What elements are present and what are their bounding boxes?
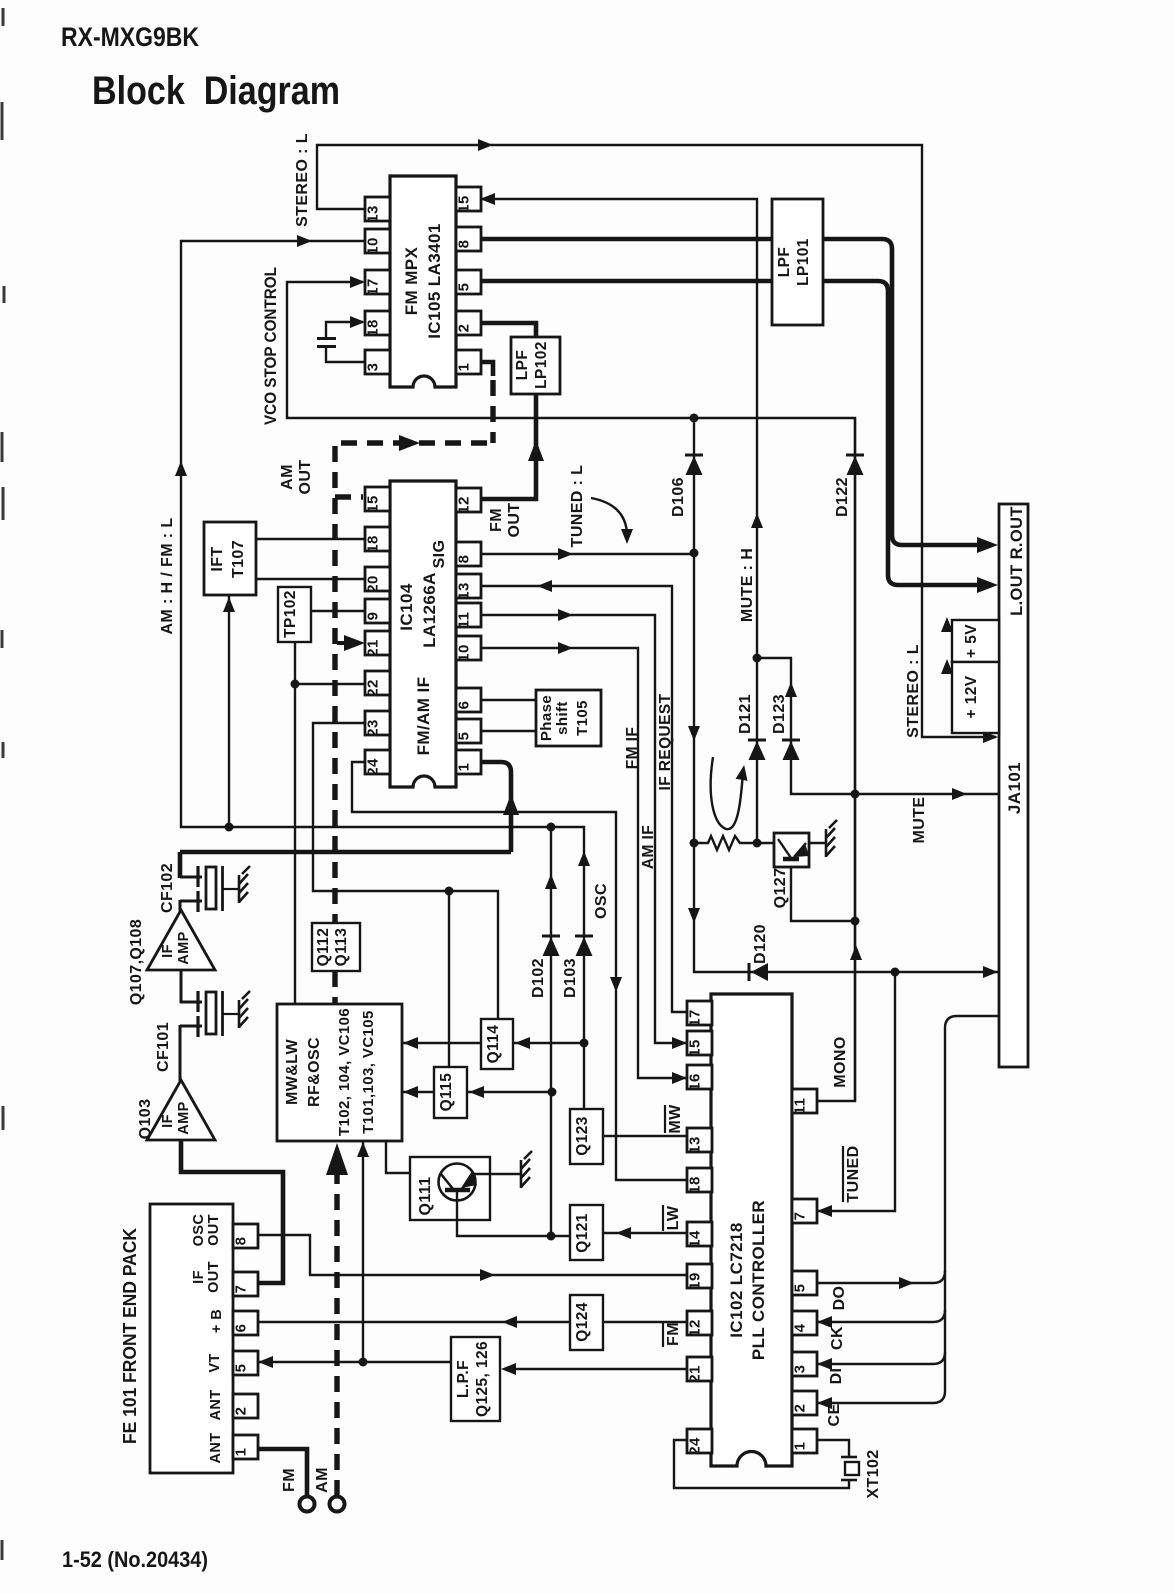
svg-text:14: 14 <box>687 1230 704 1248</box>
block Q114 <box>481 1019 513 1069</box>
IC105 pin8 <box>456 227 481 251</box>
wire VCO STOP CONTROL / tuning line <box>287 282 855 1101</box>
svg-text:D106: D106 <box>670 477 687 517</box>
IC105 pin1 <box>456 350 481 374</box>
svg-text:6: 6 <box>233 1324 250 1333</box>
IC104 pin12 <box>456 488 481 512</box>
wire T107 stem down to AM:H/FM:L line <box>228 596 230 827</box>
svg-text:MUTE : H: MUTE : H <box>739 548 756 622</box>
wire IC104 pin6 to phase shift <box>478 699 536 701</box>
IC102 pin1 <box>792 1429 817 1453</box>
junction resistor left <box>690 839 699 848</box>
svg-text:15: 15 <box>365 495 382 513</box>
block LPF LP102 <box>511 337 560 394</box>
svg-text:T102, 104, VC106: T102, 104, VC106 <box>336 1008 353 1136</box>
svg-text:AM : H / FM : L: AM : H / FM : L <box>159 517 176 634</box>
wire D106 mute branch vertical <box>694 418 1000 972</box>
wire IC104 pin24 OSC loop <box>352 762 687 1180</box>
power arrow +12V <box>947 669 952 671</box>
FE101 pin2 <box>233 1394 258 1418</box>
svg-text:LPF: LPF <box>514 350 531 380</box>
svg-text:FM IF: FM IF <box>624 727 641 769</box>
svg-text:T107: T107 <box>230 540 247 578</box>
svg-text:T101,103, VC105: T101,103, VC105 <box>360 1010 377 1134</box>
svg-text:13: 13 <box>687 1136 704 1154</box>
svg-text:IF: IF <box>160 1114 176 1128</box>
wire thick IC104 pin1 IF input <box>478 762 511 852</box>
svg-text:FM: FM <box>665 1322 682 1346</box>
block +12V <box>952 662 999 733</box>
wire dashed AM antenna riser <box>334 1175 339 1496</box>
svg-text:6: 6 <box>456 701 473 710</box>
wire IC105 pin18 capacitor link <box>326 322 363 339</box>
wire dashed arrow into IC104 pin21 <box>337 641 350 645</box>
svg-text:IC105 LA3401: IC105 LA3401 <box>425 223 444 338</box>
crystal XT102 <box>841 1456 857 1459</box>
junction D103 Q114 <box>580 1039 589 1048</box>
svg-text:Q112: Q112 <box>315 928 332 967</box>
resistor (mute network) <box>694 836 757 850</box>
wire IC102 pin14 to Q121 (LW) <box>603 1232 687 1234</box>
svg-text:18: 18 <box>365 319 382 337</box>
svg-text:T105: T105 <box>574 700 591 736</box>
block TP102 <box>278 587 311 642</box>
svg-text:2: 2 <box>456 324 473 333</box>
svg-text:OSC: OSC <box>191 1214 207 1247</box>
wire Q111 emitter to Q121 line <box>457 1192 570 1236</box>
svg-text:FE 101 FRONT END PACK: FE 101 FRONT END PACK <box>120 1228 140 1444</box>
block Q124 <box>570 1295 603 1350</box>
diode D103 <box>576 937 593 956</box>
junction mute line at D122 <box>851 790 860 799</box>
wire RF&OSC to Q115 <box>402 1091 434 1093</box>
svg-text:VT: VT <box>207 1353 223 1372</box>
svg-text:Q121: Q121 <box>574 1213 591 1253</box>
junction Q115 stem <box>445 887 454 896</box>
svg-text:12: 12 <box>456 496 473 514</box>
amplifier IF AMP Q107,Q108 <box>147 910 215 970</box>
terminal FM antenna <box>300 1497 315 1512</box>
svg-text:LP102: LP102 <box>533 341 550 389</box>
svg-text:5: 5 <box>456 283 473 292</box>
IC102 pin13 <box>687 1128 712 1152</box>
diode D106 <box>686 456 703 475</box>
svg-text:D122: D122 <box>834 477 851 517</box>
svg-text:CE: CE <box>826 1403 843 1426</box>
svg-text:IF: IF <box>191 1270 207 1284</box>
amplifier IF AMP Q103 <box>147 1080 215 1140</box>
wire TP102 stem to RF&OSC <box>294 642 296 1004</box>
svg-text:IF: IF <box>160 944 176 958</box>
block MW&LW RF&OSC <box>277 1004 402 1141</box>
annotation meter curve <box>711 757 743 829</box>
ceramic filter CF102 <box>180 876 202 879</box>
svg-text:LA1266A: LA1266A <box>420 572 439 648</box>
svg-text:AM: AM <box>279 464 296 490</box>
IC104 pin1r <box>456 750 481 774</box>
svg-text:SIG: SIG <box>431 540 448 569</box>
IC104 pin18 <box>365 527 390 551</box>
diode D122 <box>847 456 864 475</box>
wire Q115 to D102 vertical <box>467 1091 552 1093</box>
svg-text:FM: FM <box>488 508 505 532</box>
svg-text:8: 8 <box>456 240 473 249</box>
power arrow +5V <box>947 627 952 629</box>
wire thick IC105 pin8 to JA101 R.OUT <box>480 239 985 545</box>
svg-text:FM: FM <box>281 1468 298 1492</box>
wire IC104 pin11 to IC102 pin15 <box>478 615 686 1043</box>
wire thick FM antenna to FE101 pin1 <box>257 1449 307 1496</box>
svg-text:3: 3 <box>792 1365 809 1374</box>
IC102 pin4 <box>792 1311 817 1335</box>
wire T107 to IC104 pin18 <box>256 538 365 540</box>
wire D122/MONO vertical <box>854 418 856 1101</box>
junction MUTE:H branch D123 <box>753 654 762 663</box>
svg-text:Phase: Phase <box>538 695 555 741</box>
FE101 pin6 <box>233 1311 258 1335</box>
svg-text:FM/AM IF: FM/AM IF <box>414 677 433 756</box>
FE101 pin7 <box>233 1272 258 1296</box>
IC104 pin8r <box>456 542 481 566</box>
svg-text:STEREO : L: STEREO : L <box>905 644 922 738</box>
svg-text:Q125, 126: Q125, 126 <box>474 1341 491 1417</box>
svg-text:Q103: Q103 <box>137 1099 154 1140</box>
terminal AM antenna <box>330 1497 345 1512</box>
wire Q123 to IC102 pin13 (MW) <box>603 1135 687 1137</box>
junction D102 Q121 line <box>547 1232 556 1241</box>
FE101 pin8 <box>233 1224 258 1248</box>
svg-text:Q124: Q124 <box>574 1302 591 1342</box>
svg-text:XT102: XT102 <box>865 1449 882 1498</box>
IC104 body FM/AM IF LA1266A <box>390 481 456 787</box>
IC104 pin9 <box>365 599 390 623</box>
block Q115 <box>434 1067 467 1118</box>
transistor Q111 box <box>410 1157 490 1220</box>
IC105 pin18 <box>365 311 390 335</box>
wire TP102 to IC104 pin9 <box>311 610 365 612</box>
ground at CF101 <box>239 991 250 1028</box>
block Q112 Q113 <box>312 923 360 971</box>
svg-text:L.OUT R.OUT: L.OUT R.OUT <box>1008 506 1026 616</box>
svg-text:5: 5 <box>792 1284 809 1293</box>
IC105 pin15 <box>456 187 481 211</box>
svg-text:15: 15 <box>687 1039 704 1057</box>
svg-text:TP102: TP102 <box>282 590 299 638</box>
svg-text:18: 18 <box>687 1176 704 1194</box>
svg-text:4: 4 <box>792 1323 809 1332</box>
svg-text:11: 11 <box>792 1098 809 1115</box>
IC102 pin24 <box>687 1429 712 1453</box>
svg-text:MW&LW: MW&LW <box>284 1039 301 1105</box>
svg-text:DI: DI <box>828 1368 845 1385</box>
annotation curved arrow TUNED:L <box>591 498 627 540</box>
scan edge marks <box>2 8 4 1560</box>
svg-text:Q115: Q115 <box>438 1073 455 1112</box>
svg-text:21: 21 <box>687 1365 704 1383</box>
ceramic filter CF101 <box>180 1001 202 1004</box>
svg-text:12: 12 <box>687 1319 704 1337</box>
junction TP102 stem pin22 <box>291 680 300 689</box>
transistor Q127 symbol <box>778 839 791 858</box>
svg-text:17: 17 <box>687 1009 704 1027</box>
wire CF102 corner <box>178 852 183 878</box>
wire IC104 pin13 to IC102 pin17 <box>478 586 687 1012</box>
junction on AM:H/FM:L at D102 <box>547 823 556 832</box>
svg-text:LP101: LP101 <box>795 238 812 286</box>
svg-text:OUT: OUT <box>506 503 523 538</box>
FE101 pin5 <box>233 1351 258 1375</box>
IC104 pin21 <box>365 631 390 655</box>
IC104 pin23 <box>365 711 390 735</box>
IC105 pin3 <box>365 350 390 374</box>
wire MUTE:H from IC105 pin15 down <box>481 199 757 843</box>
svg-text:23: 23 <box>365 719 382 737</box>
svg-text:TUNED: TUNED <box>845 1145 862 1202</box>
block IFT T107 <box>204 522 256 595</box>
svg-text:20: 20 <box>365 575 382 593</box>
svg-text:AM: AM <box>314 1467 331 1493</box>
svg-text:Q111: Q111 <box>417 1177 434 1216</box>
capacitor C (VCO) plates <box>317 337 336 340</box>
ground at CF102 <box>239 866 250 903</box>
IC102 pin11 <box>792 1089 817 1113</box>
svg-text:7: 7 <box>233 1285 250 1294</box>
junction y418 at D106 branch <box>690 414 699 423</box>
wire T107 to IC104 pin20 <box>256 578 365 580</box>
svg-text:IFT: IFT <box>209 546 226 571</box>
svg-text:LPF: LPF <box>776 247 793 277</box>
IC102 pin7 <box>792 1199 817 1223</box>
IC102 body PLL CONTROLLER LC7218 <box>711 994 792 1466</box>
IC104 pin6r <box>456 688 481 712</box>
diode D102 <box>543 937 560 956</box>
IC104 pin13r <box>456 574 481 598</box>
wire Q107 to CF101 <box>180 969 183 1003</box>
svg-text:D102: D102 <box>530 958 547 998</box>
IC102 pin15 <box>687 1031 712 1055</box>
wire dashed below Q112 to RF&OSC <box>332 971 337 1004</box>
diode D123 <box>783 741 800 760</box>
junction MUTE:H resistor right <box>753 839 762 848</box>
wire thick LP102 to IC104 pin12 (FM OUT) <box>478 394 536 499</box>
svg-text:1: 1 <box>456 763 473 772</box>
svg-text:15: 15 <box>456 195 473 213</box>
svg-text:1: 1 <box>233 1448 250 1457</box>
svg-text:2: 2 <box>233 1407 250 1416</box>
wire CF101 to IF amp Q103 <box>179 1025 182 1081</box>
wire Q127 collector to ground <box>809 842 826 844</box>
svg-text:D120: D120 <box>752 924 769 964</box>
svg-text:+ 12V: + 12V <box>963 675 980 718</box>
svg-text:13: 13 <box>456 582 473 600</box>
svg-text:JA101: JA101 <box>1005 762 1024 814</box>
svg-text:Block Diagram: Block Diagram <box>92 69 340 113</box>
wire VT riser to RF&OSC <box>362 1141 364 1362</box>
svg-text:1-52 (No.20434): 1-52 (No.20434) <box>62 1547 208 1572</box>
svg-text:7: 7 <box>792 1212 809 1221</box>
svg-text:10: 10 <box>456 644 473 662</box>
svg-text:3: 3 <box>365 363 382 372</box>
wire thick IF line to CF102 <box>180 850 511 855</box>
wire thick IC105 pin5 to JA101 L.OUT <box>480 281 985 585</box>
svg-text:Q113: Q113 <box>333 928 350 967</box>
wire D123 branch to MUTE line <box>757 658 1000 794</box>
IC102 pin12 <box>687 1311 712 1335</box>
wire AM:H/FM:L long left loop <box>181 241 584 938</box>
wire TUNED:L from IC104 pin8 <box>478 553 694 555</box>
IC102 pin19 <box>687 1264 712 1288</box>
block Q123 <box>570 1109 603 1164</box>
transistor Q111 symbol <box>439 1164 476 1201</box>
wire IC104 pin23 loop to Q114/Q115 <box>313 723 498 1019</box>
wire IC102 pin7 TUNED to D120 line <box>816 972 895 1211</box>
svg-text:22: 22 <box>365 679 382 697</box>
IC102 pin21 <box>687 1357 712 1381</box>
IC102 pin18 <box>687 1168 712 1192</box>
transistor Q127 box <box>774 833 809 867</box>
ground at Q127 <box>826 820 837 857</box>
svg-text:D121: D121 <box>737 694 754 734</box>
IC104 pin15 <box>365 487 390 511</box>
svg-text:RX-MXG9BK: RX-MXG9BK <box>61 22 199 52</box>
svg-text:CF101: CF101 <box>155 1022 172 1072</box>
diode D120 <box>751 963 768 981</box>
IC105 body FM MPX LA3401 <box>390 176 456 387</box>
svg-text:2: 2 <box>792 1404 809 1413</box>
wire CF102 to IF amp <box>179 900 182 912</box>
svg-text:OUT: OUT <box>206 1214 222 1246</box>
svg-text:AMP: AMP <box>176 931 192 964</box>
IC102 pin16 <box>687 1065 712 1089</box>
svg-text:19: 19 <box>687 1272 704 1290</box>
junction VT riser <box>359 1358 368 1367</box>
IC104 pin20 <box>365 567 390 591</box>
svg-text:13: 13 <box>365 205 382 223</box>
IC102 pin17 <box>687 1001 712 1025</box>
svg-text:DO: DO <box>831 1286 848 1311</box>
svg-text:OUT: OUT <box>297 460 314 495</box>
IC105 pin10 <box>365 229 390 253</box>
IC105 pin13 <box>365 197 390 221</box>
wire D102 vertical <box>550 827 552 1236</box>
IC104 pin11r <box>456 603 481 627</box>
svg-text:Q107,Q108: Q107,Q108 <box>128 919 145 1005</box>
IC102 pin2 <box>792 1391 817 1415</box>
svg-text:PLL CONTROLLER: PLL CONTROLLER <box>749 1200 768 1360</box>
svg-text:MW: MW <box>667 1104 684 1134</box>
diode D121 <box>749 741 766 760</box>
wire XT102 to IC102 pin24 <box>674 1440 849 1488</box>
wire IC104 pin5 to phase shift <box>478 730 536 732</box>
svg-text:MUTE: MUTE <box>911 797 928 844</box>
wire FE101 pin5 VT to LPF Q125 <box>257 1361 451 1363</box>
junction tuned line <box>690 549 699 558</box>
svg-text:IC104: IC104 <box>397 583 416 631</box>
wire RF&OSC to Q114 <box>402 1042 481 1044</box>
IC104 pin22 <box>365 671 390 695</box>
IC105 pin17 <box>365 270 390 294</box>
svg-text:11: 11 <box>456 612 473 629</box>
wire IC104 pin10 to IC102 pin16 <box>478 648 686 1078</box>
block Phase shift T105 <box>536 690 601 746</box>
connector JA101 <box>999 504 1028 1067</box>
block +5V <box>952 620 999 662</box>
IC102 pin14 <box>687 1222 712 1246</box>
svg-text:L.P.F: L.P.F <box>455 1360 472 1398</box>
svg-text:shift: shift <box>554 701 571 735</box>
svg-text:5: 5 <box>456 732 473 741</box>
svg-text:D123: D123 <box>771 694 788 734</box>
svg-text:D103: D103 <box>562 958 579 998</box>
wire FE101 pin6 +B to Q124 to IC102 pin12 (FM) <box>257 1321 570 1323</box>
wire dashed AM OUT: IC105 pin1 to IC104 pin15 <box>480 362 493 376</box>
wire RF&OSC to Q111 base <box>386 1141 410 1173</box>
svg-text:24: 24 <box>687 1437 704 1455</box>
svg-text:IC102 LC7218: IC102 LC7218 <box>727 1222 746 1337</box>
svg-text:8: 8 <box>456 555 473 564</box>
wire STEREO:L from IC105 pin13 to JA101 <box>317 145 996 737</box>
svg-text:IF REQUEST: IF REQUEST <box>657 693 674 790</box>
junction D102 Q115 <box>548 1088 557 1097</box>
wire IC102 pin1 to XT102 <box>816 1440 849 1457</box>
wire thick IC105 pin2 to LPF LP102 <box>480 323 536 337</box>
IC105 pin2 <box>456 311 481 335</box>
wire capacitor to IC105 pin3 <box>326 346 365 362</box>
svg-text:AM IF: AM IF <box>640 825 657 869</box>
ground at Q111 <box>521 1151 532 1188</box>
svg-text:STEREO : L: STEREO : L <box>294 133 311 227</box>
wire Q115 stem <box>448 891 450 1067</box>
wire FE101 pin8 OSC OUT to IC102 pin19 <box>257 1235 687 1275</box>
svg-text:9: 9 <box>365 612 382 621</box>
svg-text:RF&OSC: RF&OSC <box>306 1037 323 1107</box>
svg-text:24: 24 <box>365 758 382 776</box>
svg-text:OSC: OSC <box>593 883 610 919</box>
junction on AM:H/FM:L at T107 stem <box>225 823 234 832</box>
wire thick Q103 to FE101 IF OUT <box>181 1140 283 1283</box>
svg-text:+ B: + B <box>209 1309 225 1333</box>
svg-text:VCO STOP CONTROL: VCO STOP CONTROL <box>261 267 280 425</box>
svg-text:+ 5V: + 5V <box>963 624 980 658</box>
svg-text:1: 1 <box>792 1442 809 1451</box>
wire Q127 emitter to MONO vertical <box>791 861 855 921</box>
svg-text:CF102: CF102 <box>159 863 176 913</box>
junction D120 line at TUNED vertical <box>891 968 900 977</box>
block LPF LP101 <box>772 199 823 325</box>
svg-text:1: 1 <box>456 363 473 372</box>
block FE101 FRONT END PACK <box>150 1204 233 1473</box>
wire Q114 to D103 vertical <box>513 1042 584 1044</box>
svg-text:ANT: ANT <box>208 1389 224 1420</box>
IC102 pin3 <box>792 1352 817 1376</box>
wire IC102 pin21 to LPF Q125 <box>510 1368 687 1370</box>
wire branch to IC104 pin22 <box>295 683 365 685</box>
FE101 pin1 <box>233 1435 258 1459</box>
svg-text:8: 8 <box>233 1237 250 1246</box>
block Q121 <box>570 1205 603 1260</box>
svg-text:LW: LW <box>665 1205 682 1230</box>
wire DO/CK/DI/CE bus to JA101 <box>818 1016 999 1403</box>
svg-text:5: 5 <box>233 1364 250 1373</box>
svg-text:17: 17 <box>365 278 382 296</box>
svg-text:OUT: OUT <box>206 1261 222 1293</box>
svg-text:ANT: ANT <box>208 1432 224 1463</box>
IC104 pin24 <box>365 750 390 774</box>
svg-text:16: 16 <box>687 1073 704 1091</box>
wire D103 vertical lower <box>583 938 585 1109</box>
svg-text:10: 10 <box>365 237 382 255</box>
block L.P.F Q125,126 <box>451 1337 500 1421</box>
